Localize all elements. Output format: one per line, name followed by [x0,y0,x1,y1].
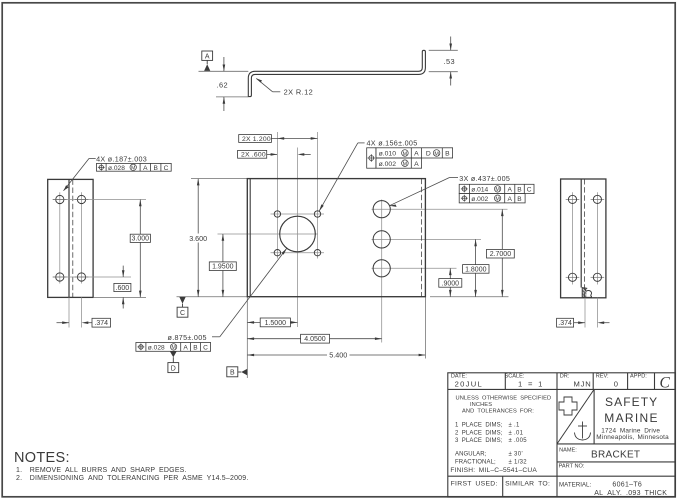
dimension 5.400 [247,354,425,356]
small hole top-left [274,211,280,217]
svg-text:4.0500: 4.0500 [304,336,326,343]
logo anchor [575,422,591,441]
extension left edge down [246,297,248,378]
svg-text:M: M [434,151,439,157]
svg-text:C: C [660,375,671,392]
hole top-right [593,195,601,203]
centerline 3-hole column [381,200,383,343]
svg-text:M: M [131,166,136,172]
small hole bottom-right [314,250,320,256]
svg-text:4X ø.156±.005: 4X ø.156±.005 [367,138,418,147]
front view outline [247,179,425,297]
svg-text:.374: .374 [558,320,572,327]
medium hole top [373,201,390,218]
svg-text:D: D [171,365,176,372]
svg-text:DR:: DR: [560,374,570,380]
svg-text:1 = 1: 1 = 1 [518,379,543,388]
svg-text:D: D [426,151,431,158]
svg-text:C: C [180,310,185,317]
svg-text:ø.014: ø.014 [471,187,488,194]
hole row centerline top [53,199,147,201]
callout 4X .187 leader [89,157,96,159]
centerline big-hole vertical [297,148,299,328]
svg-text:APPD:: APPD: [630,374,647,380]
svg-text:MARINE: MARINE [604,411,658,425]
dimension 2.7000 [501,209,503,296]
left view bend line extension below [68,297,70,327]
datum A stub [206,60,208,64]
hole top-left [56,195,64,203]
hole bottom-right [593,273,601,281]
hole bottom-right [77,273,85,281]
hole top-left [568,195,576,203]
row1 vertical dividers [504,373,506,390]
svg-text:.53: .53 [444,57,455,66]
hole bottom-left [568,273,576,281]
svg-text:3 PLACE DIMS;: 3 PLACE DIMS; [455,438,503,444]
svg-text:2. DIMENSIONING AND TOLERANCI: 2. DIMENSIONING AND TOLERANCING PER ASME… [16,475,249,482]
extension right edge down [424,297,426,359]
feature control frame .014 [459,184,534,193]
centerline small-hole column right [317,132,319,259]
svg-text:A: A [143,165,148,172]
left view centerline column right [81,192,83,283]
dimension .600 [122,266,124,277]
dimension .374 right view [557,318,574,327]
svg-text:A: A [507,187,512,194]
svg-text:C: C [203,345,208,352]
feature control frame .028 [97,163,172,171]
small hole top-right [314,211,320,217]
svg-text:M: M [495,197,500,203]
centerline 3-hole row top [372,208,508,210]
svg-text:2X .600: 2X .600 [241,152,266,159]
logo cross [559,397,577,415]
dimension 3.600 [197,179,199,297]
svg-text:1.9500: 1.9500 [212,264,234,271]
svg-text:B: B [230,370,235,377]
hole cross ticks [53,200,88,278]
svg-text:NAME:: NAME: [559,448,577,454]
svg-text:2X 1.200: 2X 1.200 [242,136,271,143]
svg-text:UNLESS OTHERWISE SPECIFIED: UNLESS OTHERWISE SPECIFIED [456,395,552,401]
svg-text:1.5000: 1.5000 [265,320,287,327]
svg-text:2X R.12: 2X R.12 [284,88,314,97]
svg-text:BRACKET: BRACKET [591,450,640,461]
svg-text:M: M [403,151,408,157]
svg-text:M: M [495,187,500,193]
centerline small-hole row bottom [271,252,325,254]
bent strip outline [248,50,425,96]
tolerance/finish bottom line [448,475,675,477]
svg-text:MJN: MJN [574,379,592,388]
bottom edge extension right [93,296,146,298]
dimension 1.5000 [247,321,297,323]
svg-text:± .1: ± .1 [509,423,521,429]
centerline 3-hole row middle [372,238,482,240]
svg-text:A: A [205,53,210,60]
dimension .9000 [449,268,451,296]
dimension .62 extension line [216,96,248,98]
svg-text:INCHES: INCHES [470,402,492,408]
right view outline [561,179,606,298]
svg-text:B: B [193,345,198,352]
callout 4X .156 leader [358,142,365,144]
svg-text:± 30’: ± 30’ [509,452,523,458]
left view bend line [68,179,70,297]
leader 2X R.12 [273,91,281,93]
datum B [227,367,238,377]
medium hole bottom [373,260,390,277]
svg-text:± 1/32: ± 1/32 [509,459,528,465]
svg-text:2 PLACE DIMS;: 2 PLACE DIMS; [455,430,503,436]
svg-text:.9000: .9000 [442,280,460,287]
left view hidden bend line [72,179,74,297]
svg-text:A: A [414,151,419,158]
centerline small-hole column left [276,132,278,259]
left view outline [48,179,93,297]
svg-text:FINISH: MIL–C–5541–CUA: FINISH: MIL–C–5541–CUA [450,467,537,474]
svg-text:1. REMOVE ALL BURRS AND SHARP: 1. REMOVE ALL BURRS AND SHARP EDGES. [16,467,187,474]
svg-text:A: A [414,161,419,168]
svg-text:1.8000: 1.8000 [465,266,487,273]
dimension .374 [57,322,69,324]
centerline big-hole horizontal [218,233,319,235]
svg-text:.600: .600 [116,285,130,292]
right view centerline column left [572,192,574,284]
dimension 1.9500 [222,234,224,297]
callout dia .875 leader [212,336,220,338]
hole bottom-left [56,273,64,281]
svg-text:NOTES:: NOTES: [14,450,70,466]
svg-text:.374: .374 [94,320,108,327]
right view centerline below rect [596,298,598,328]
right view centerline column right [596,192,598,284]
extension bottom edge right [430,296,509,298]
svg-text:AL ALY. .093 THICK: AL ALY. .093 THICK [594,490,667,497]
svg-text:Minneapolis, Minnesota: Minneapolis, Minnesota [596,434,669,441]
left view centerline column left [59,192,61,283]
svg-text:3.000: 3.000 [132,236,150,243]
datum D [170,352,177,358]
svg-text:B: B [153,165,158,172]
front view bend line left [249,179,251,297]
extension bottom edge left [177,296,248,298]
svg-text:FRACTIONAL;: FRACTIONAL; [455,459,496,465]
svg-text:1 PLACE DIMS;: 1 PLACE DIMS; [455,423,503,429]
svg-text:ø.875±.005: ø.875±.005 [168,333,207,342]
svg-text:ANGULAR;: ANGULAR; [455,452,487,458]
first used divider [502,476,504,497]
extension top edge left [191,178,247,180]
svg-text:2.7000: 2.7000 [490,251,512,258]
svg-text:ø.028: ø.028 [108,165,125,172]
svg-text:ø.002: ø.002 [471,196,488,203]
svg-text:ø.010: ø.010 [379,151,397,158]
part no row line [557,461,675,463]
svg-text:± .005: ± .005 [509,438,528,444]
centerline 3-hole row bottom [372,267,457,269]
svg-text:MATERIAL:: MATERIAL: [559,481,591,488]
svg-text:ø.002: ø.002 [379,161,397,168]
datum A surface extension line [199,70,249,72]
logo diagonal [557,389,594,444]
svg-text:0: 0 [614,379,618,388]
datum A box [202,51,213,60]
svg-text:A: A [507,196,512,203]
svg-text:C: C [164,165,169,172]
svg-text:3.600: 3.600 [189,234,207,243]
hole row ticks [566,199,605,277]
hole row centerline bottom [53,276,132,278]
dimension 3.000 [139,200,141,298]
datum A triangle [204,64,210,71]
feature control frame .028 big hole [136,343,211,352]
svg-text:B: B [517,196,522,203]
svg-text:SIMILAR TO:: SIMILAR TO: [505,481,550,488]
svg-text:.62: .62 [217,80,228,89]
dimension 2X .600 [238,150,267,158]
svg-text:3X ø.437±.005: 3X ø.437±.005 [459,174,510,183]
big hole [280,216,316,252]
svg-text:FIRST USED:: FIRST USED: [451,481,498,488]
right view bend line [580,179,582,288]
svg-text:SAFETY: SAFETY [605,395,658,409]
right view hidden bend line [584,179,586,298]
svg-text:± .01: ± .01 [509,430,524,436]
dimension .53 extension lines [429,49,458,51]
centerline small-hole row top [271,213,325,215]
svg-text:B: B [517,187,522,194]
row 1 bottom line [448,388,675,390]
svg-text:B: B [445,151,450,158]
svg-text:M: M [403,162,408,168]
dimension 4.0500 [247,338,381,340]
svg-text:PART NO:: PART NO: [559,463,585,469]
dimension .62 arrows [223,57,225,71]
feature control frame .002 [459,194,525,203]
left view centerline below rect [81,297,83,327]
svg-text:C: C [527,187,532,194]
svg-text:4X ø.187±.003: 4X ø.187±.003 [96,155,147,164]
broken-out section hatch detail [582,288,591,298]
small hole bottom-left [274,250,280,256]
hole top-right [77,195,85,203]
name row line [557,443,675,445]
svg-text:5.400: 5.400 [329,351,347,360]
svg-text:M: M [171,345,176,351]
svg-text:6061–T6: 6061–T6 [612,481,642,488]
front view hidden bend line right [421,179,423,297]
svg-text:AND TOLERANCES FOR:: AND TOLERANCES FOR: [462,409,534,415]
dimension .53 arrows [450,37,452,51]
callout 3X .437 leader [450,177,459,179]
svg-text:ø.028: ø.028 [148,345,165,352]
medium hole middle [373,231,390,248]
logo cell right divider [593,389,595,444]
dimension 1.8000 [475,239,477,296]
datum C [179,297,185,304]
svg-text:REV:: REV: [596,374,609,380]
title block outer frame [448,373,675,497]
dimension 2X 1.200 [239,135,272,143]
bend line extension below [584,298,586,328]
svg-text:A: A [183,345,188,352]
composite feature control frame .010/.002 [367,148,453,168]
svg-text:20JUL: 20JUL [455,379,483,388]
